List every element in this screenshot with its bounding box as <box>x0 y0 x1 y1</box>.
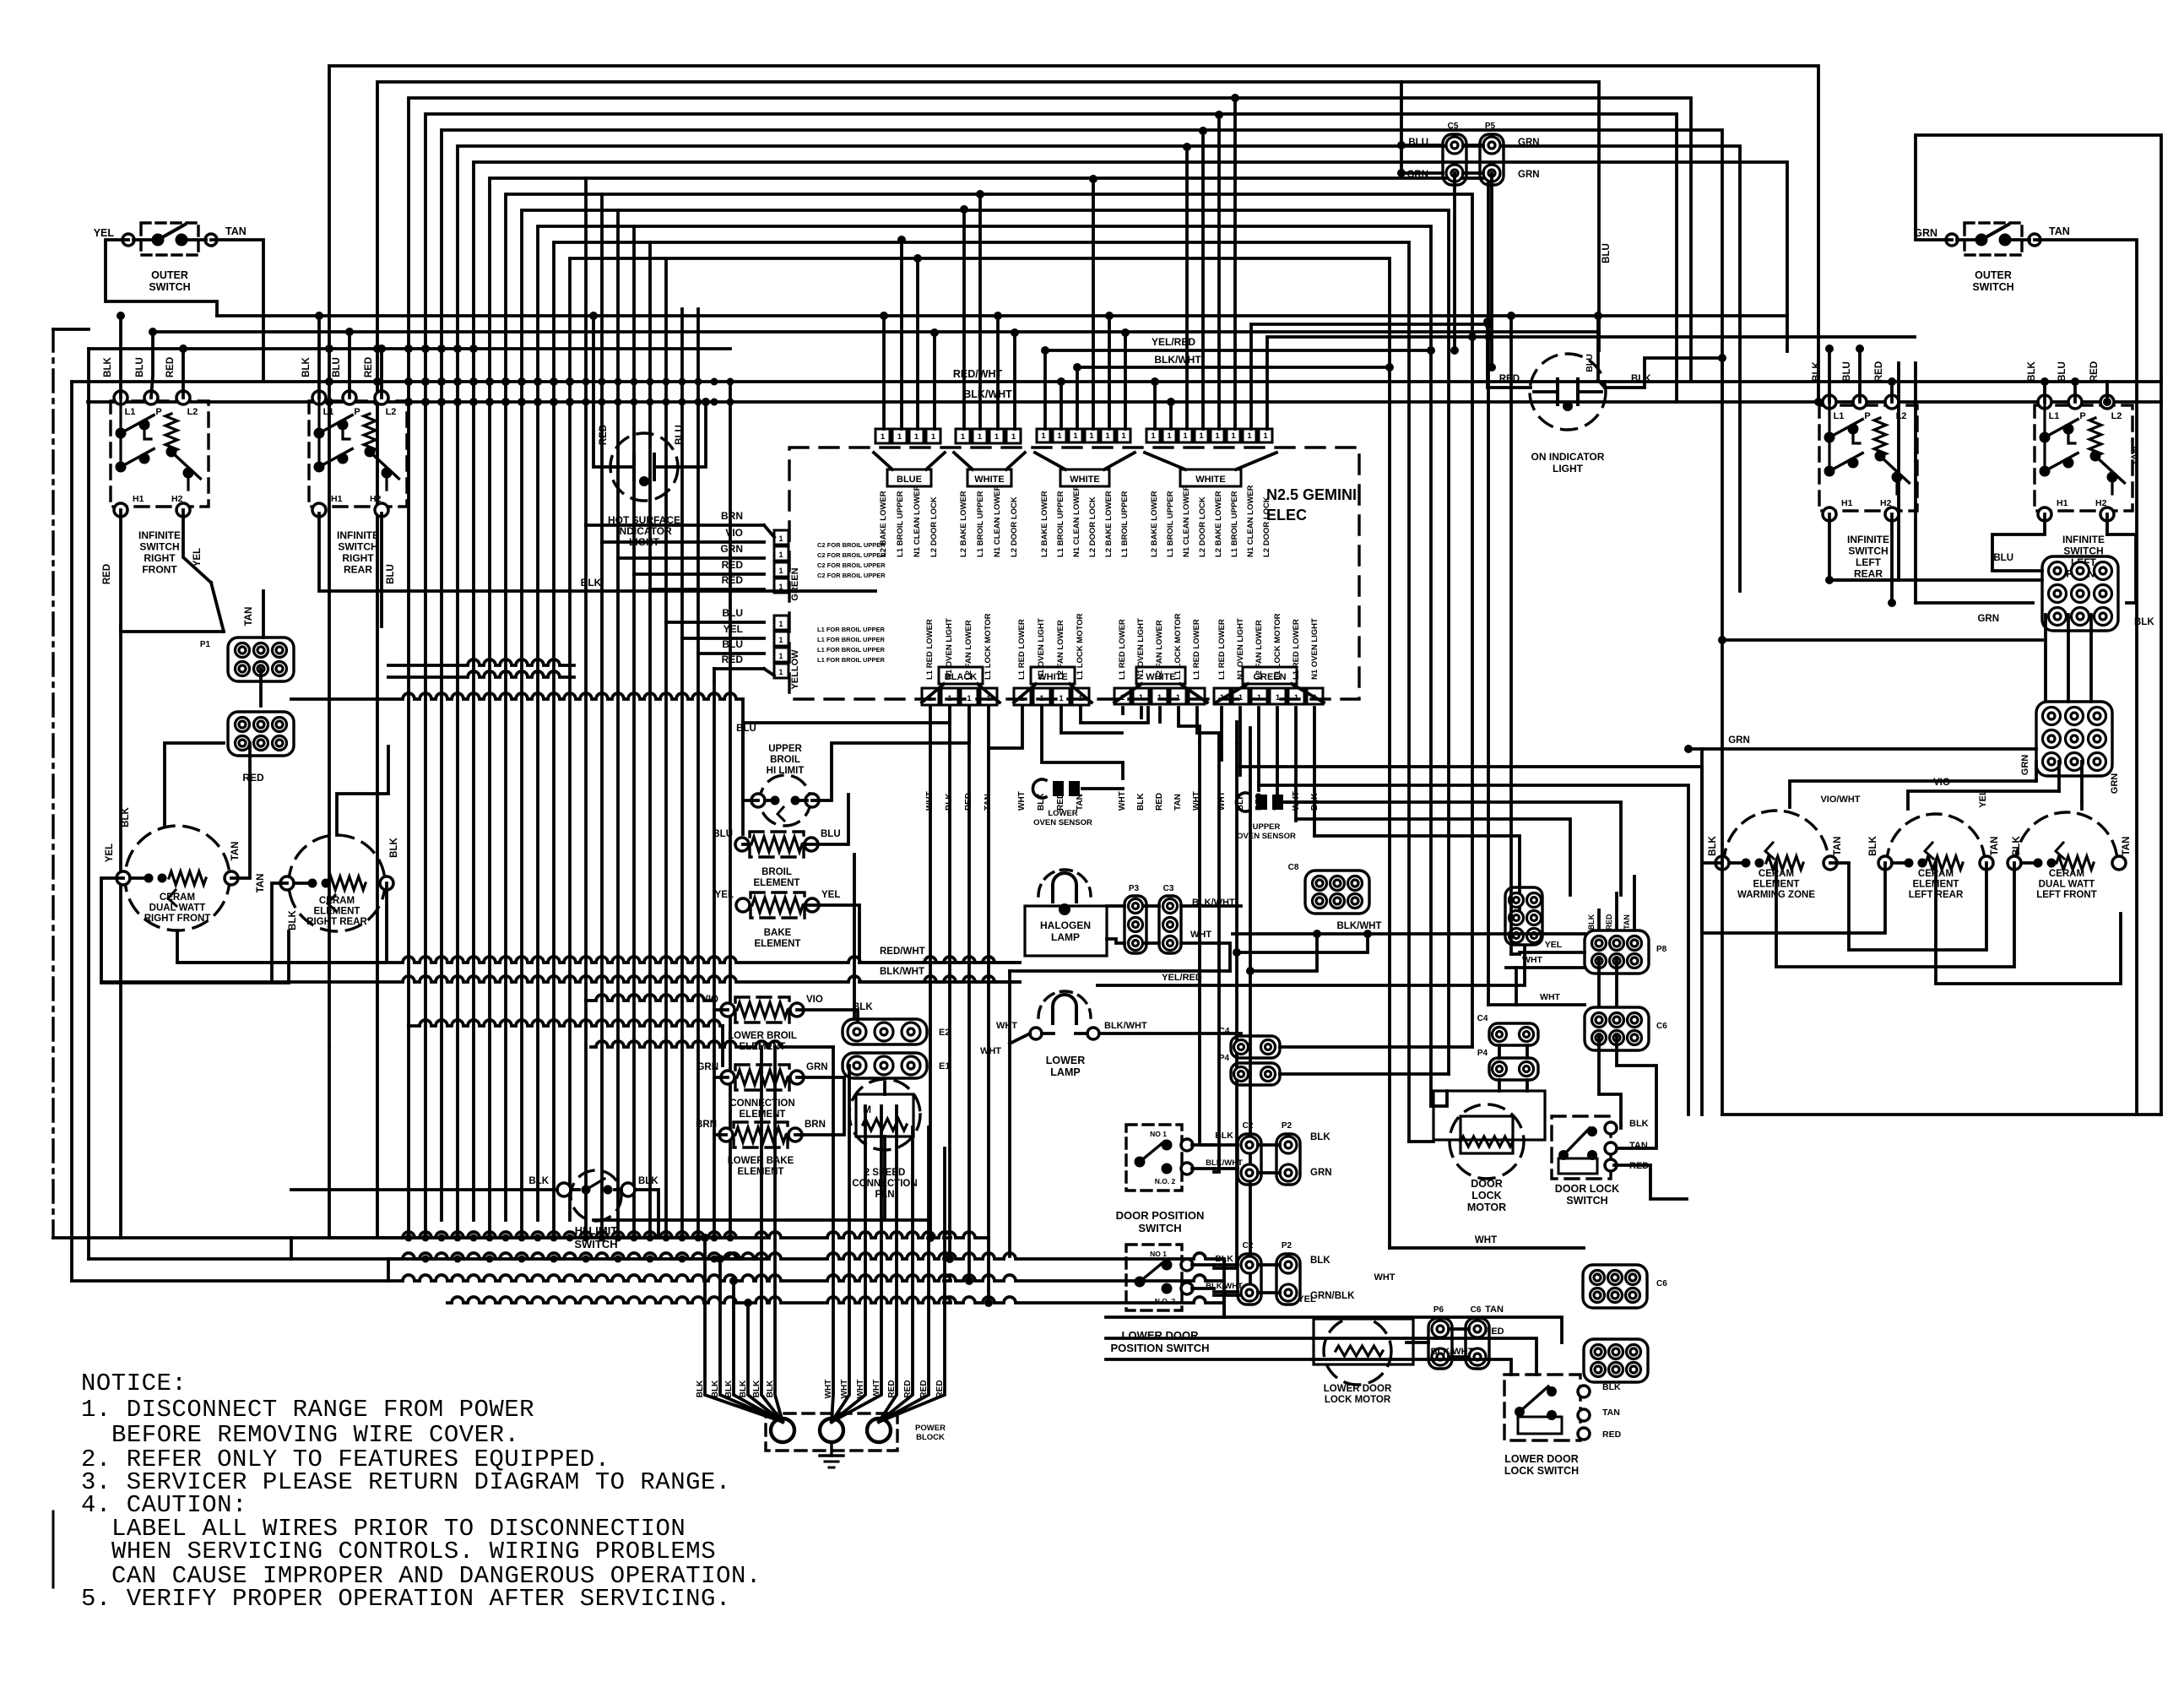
svg-text:YEL: YEL <box>723 623 743 635</box>
svg-text:1: 1 <box>1263 431 1268 441</box>
svg-text:LOWER DOOR: LOWER DOOR <box>1504 1453 1579 1465</box>
svg-text:BLK: BLK <box>1136 793 1146 811</box>
svg-text:1: 1 <box>1039 694 1044 703</box>
svg-text:L1 RED LOWER: L1 RED LOWER <box>1192 619 1201 680</box>
svg-text:DOOR: DOOR <box>1471 1178 1503 1190</box>
svg-text:C4: C4 <box>1219 1027 1230 1036</box>
svg-text:1: 1 <box>1151 431 1156 441</box>
svg-text:L2 DOOR LOCK: L2 DOOR LOCK <box>1088 496 1097 557</box>
svg-text:FRONT: FRONT <box>142 564 177 576</box>
svg-text:L2 BAKE LOWER: L2 BAKE LOWER <box>1214 491 1223 557</box>
svg-text:1: 1 <box>1157 693 1162 702</box>
svg-text:GRN: GRN <box>1977 614 1999 624</box>
svg-text:REAR: REAR <box>344 564 372 576</box>
svg-text:WHT: WHT <box>996 1021 1017 1031</box>
svg-text:TAN: TAN <box>1076 794 1085 811</box>
svg-text:RED: RED <box>722 559 744 571</box>
svg-text:RED/WHT: RED/WHT <box>880 947 925 957</box>
svg-text:L1 RED LOWER: L1 RED LOWER <box>1118 619 1127 680</box>
svg-text:INFINITE: INFINITE <box>337 529 379 541</box>
svg-text:C2 FOR BROIL UPPER: C2 FOR BROIL UPPER <box>817 561 886 569</box>
svg-text:WHITE: WHITE <box>974 475 1004 485</box>
svg-text:L1 BROIL UPPER: L1 BROIL UPPER <box>976 491 985 557</box>
svg-text:BLK: BLK <box>2027 361 2037 381</box>
svg-text:N1 OVEN LIGHT: N1 OVEN LIGHT <box>1037 618 1046 680</box>
svg-text:1: 1 <box>778 636 783 644</box>
svg-text:LOCK: LOCK <box>1471 1190 1501 1202</box>
svg-text:1: 1 <box>1089 431 1094 441</box>
svg-text:P4: P4 <box>1477 1049 1488 1058</box>
svg-text:BLU: BLU <box>736 724 756 734</box>
svg-text:DUAL WATT: DUAL WATT <box>2039 880 2095 890</box>
svg-text:H2: H2 <box>1880 498 1892 508</box>
svg-text:UPPER: UPPER <box>1253 822 1281 832</box>
svg-text:SWITCH: SWITCH <box>1138 1222 1181 1234</box>
svg-text:N2.5 GEMINI: N2.5 GEMINI <box>1266 486 1357 503</box>
svg-text:P: P <box>1864 411 1870 421</box>
svg-text:L2 FAN LOWER: L2 FAN LOWER <box>1155 620 1164 680</box>
svg-text:L1: L1 <box>1834 411 1845 421</box>
svg-text:1: 1 <box>1176 693 1181 702</box>
svg-text:YEL: YEL <box>1545 940 1563 950</box>
svg-text:RED: RED <box>722 654 744 665</box>
svg-text:BAKE: BAKE <box>764 928 792 938</box>
svg-text:1: 1 <box>1231 431 1236 441</box>
svg-text:BLK/WHT: BLK/WHT <box>1154 354 1201 366</box>
svg-text:1: 1 <box>1247 431 1252 441</box>
svg-text:HALOGEN: HALOGEN <box>1040 919 1091 931</box>
svg-text:L2 BAKE LOWER: L2 BAKE LOWER <box>959 491 968 557</box>
svg-text:GRN: GRN <box>1728 735 1750 746</box>
svg-text:H2: H2 <box>370 494 382 504</box>
svg-text:ELEMENT: ELEMENT <box>755 939 801 949</box>
svg-text:WHT: WHT <box>1217 791 1227 811</box>
svg-text:1: 1 <box>897 432 902 442</box>
svg-text:BLU: BLU <box>1842 361 1852 382</box>
svg-text:WHITE: WHITE <box>1070 475 1099 485</box>
svg-text:C6: C6 <box>1656 1022 1667 1031</box>
svg-text:C4: C4 <box>1477 1014 1488 1023</box>
svg-text:RED: RED <box>102 564 112 584</box>
svg-text:C3: C3 <box>1163 884 1174 893</box>
svg-text:BLK/WHT: BLK/WHT <box>880 967 924 977</box>
svg-text:5. VERIFY PROPER OPERATION AFT: 5. VERIFY PROPER OPERATION AFTER SERVICI… <box>81 1585 731 1613</box>
svg-text:BLK: BLK <box>103 356 113 377</box>
svg-text:GRN: GRN <box>1518 138 1540 148</box>
svg-text:C6: C6 <box>1471 1305 1482 1315</box>
svg-text:WHT: WHT <box>1192 791 1201 811</box>
svg-text:C2 FOR BROIL UPPER: C2 FOR BROIL UPPER <box>817 541 886 549</box>
svg-text:L1 LOCK MOTOR: L1 LOCK MOTOR <box>1173 613 1183 680</box>
svg-text:N1 OVEN LIGHT: N1 OVEN LIGHT <box>1136 618 1146 680</box>
svg-text:BLK: BLK <box>1868 835 1878 855</box>
svg-text:TAN: TAN <box>1833 837 1843 856</box>
svg-text:BLK: BLK <box>581 577 602 589</box>
svg-text:RIGHT FRONT: RIGHT FRONT <box>144 914 211 924</box>
svg-text:TAN: TAN <box>1173 794 1183 811</box>
svg-text:OVEN SENSOR: OVEN SENSOR <box>1237 832 1296 841</box>
svg-text:1: 1 <box>778 567 783 575</box>
svg-text:1: 1 <box>778 652 783 660</box>
svg-text:SWITCH: SWITCH <box>1848 545 1888 557</box>
svg-text:L1 BROIL UPPER: L1 BROIL UPPER <box>1056 491 1065 557</box>
svg-text:BLK: BLK <box>2012 835 2022 855</box>
svg-text:E1: E1 <box>939 1061 950 1071</box>
svg-text:LOCK SWITCH: LOCK SWITCH <box>1504 1465 1579 1477</box>
svg-text:WHT: WHT <box>1540 992 1560 1002</box>
svg-text:1: 1 <box>1167 431 1172 441</box>
svg-text:L2 FAN LOWER: L2 FAN LOWER <box>964 620 973 680</box>
svg-text:TAN: TAN <box>984 794 993 811</box>
svg-text:1: 1 <box>1057 431 1062 441</box>
svg-text:SWITCH: SWITCH <box>149 281 190 293</box>
svg-text:UPPER: UPPER <box>768 744 802 754</box>
svg-text:GRN: GRN <box>806 1062 828 1072</box>
svg-text:RED: RED <box>887 1380 897 1397</box>
svg-text:TAN: TAN <box>230 842 241 861</box>
svg-text:YEL: YEL <box>821 890 840 900</box>
svg-text:CERAM: CERAM <box>160 892 195 903</box>
svg-text:SWITCH: SWITCH <box>338 541 377 553</box>
svg-text:RED: RED <box>919 1380 929 1397</box>
svg-text:BLU: BLU <box>1601 243 1612 263</box>
svg-text:RED: RED <box>935 1380 945 1397</box>
svg-text:L2 DOOR LOCK: L2 DOOR LOCK <box>929 496 939 557</box>
svg-text:L1 BROIL UPPER: L1 BROIL UPPER <box>1230 491 1239 557</box>
svg-text:BLK: BLK <box>1037 793 1046 811</box>
svg-text:RED: RED <box>599 425 609 445</box>
svg-text:CONNECTION: CONNECTION <box>852 1179 917 1189</box>
svg-text:H1: H1 <box>2057 498 2068 508</box>
svg-text:BLU: BLU <box>386 564 396 584</box>
svg-text:1: 1 <box>778 583 783 591</box>
svg-text:1. DISCONNECT RANGE FROM POWER: 1. DISCONNECT RANGE FROM POWER <box>81 1396 534 1424</box>
svg-text:1: 1 <box>1294 693 1299 702</box>
svg-text:TAN: TAN <box>225 225 247 237</box>
svg-text:SWITCH: SWITCH <box>1566 1195 1607 1207</box>
svg-text:LAMP: LAMP <box>1050 1066 1080 1078</box>
svg-text:WHT: WHT <box>1374 1272 1395 1283</box>
svg-text:L2 BAKE LOWER: L2 BAKE LOWER <box>1150 491 1159 557</box>
svg-text:HOT SURFACE: HOT SURFACE <box>608 514 680 526</box>
svg-text:BLK: BLK <box>1631 374 1651 384</box>
svg-text:TAN: TAN <box>2049 225 2070 237</box>
svg-text:1: 1 <box>778 551 783 559</box>
svg-text:N1 CLEAN LOWER: N1 CLEAN LOWER <box>1072 485 1081 557</box>
svg-text:L1 RED LOWER: L1 RED LOWER <box>1292 619 1301 680</box>
svg-text:YEL: YEL <box>1978 789 1988 808</box>
svg-text:1: 1 <box>881 432 886 442</box>
svg-text:BLK: BLK <box>121 806 131 827</box>
svg-text:1: 1 <box>978 432 983 442</box>
svg-text:RED: RED <box>964 793 973 811</box>
svg-text:1: 1 <box>1199 431 1204 441</box>
svg-text:RED/WHT: RED/WHT <box>953 368 1003 380</box>
svg-text:LOWER DOOR: LOWER DOOR <box>1324 1384 1392 1394</box>
svg-text:RED: RED <box>722 574 744 586</box>
svg-text:GRN: GRN <box>696 1062 718 1072</box>
svg-text:L2 FAN LOWER: L2 FAN LOWER <box>1255 620 1264 680</box>
svg-text:BLK: BLK <box>389 837 399 857</box>
svg-text:BLK: BLK <box>1587 914 1596 930</box>
svg-text:L1 FOR BROIL UPPER: L1 FOR BROIL UPPER <box>817 646 885 654</box>
svg-text:BROIL: BROIL <box>761 867 792 877</box>
svg-text:L1 RED LOWER: L1 RED LOWER <box>1017 619 1027 680</box>
svg-text:RED: RED <box>1605 914 1613 930</box>
svg-text:1: 1 <box>914 432 919 442</box>
svg-text:BRN: BRN <box>805 1120 826 1130</box>
svg-text:POSITION SWITCH: POSITION SWITCH <box>1111 1342 1210 1354</box>
svg-text:1: 1 <box>1105 431 1110 441</box>
svg-text:H1: H1 <box>133 494 144 504</box>
svg-text:BRN: BRN <box>696 1120 717 1130</box>
svg-text:BLK: BLK <box>1812 361 1822 381</box>
svg-text:GRN: GRN <box>1310 1168 1332 1178</box>
svg-text:BLK: BLK <box>696 1380 705 1397</box>
svg-text:WHT: WHT <box>824 1380 833 1399</box>
svg-text:WHT: WHT <box>856 1380 865 1399</box>
svg-text:BLU: BLU <box>1993 553 2013 563</box>
svg-text:1: 1 <box>1238 693 1244 702</box>
svg-text:1: 1 <box>1276 693 1281 702</box>
svg-text:BLU: BLU <box>332 357 342 377</box>
svg-text:VIO: VIO <box>725 527 743 539</box>
svg-text:VIO: VIO <box>1933 778 1950 788</box>
svg-text:BLU: BLU <box>821 829 841 839</box>
svg-text:N1 CLEAN LOWER: N1 CLEAN LOWER <box>1182 485 1191 557</box>
svg-text:BLK/WHT: BLK/WHT <box>1431 1347 1474 1357</box>
svg-text:1: 1 <box>1121 431 1126 441</box>
svg-text:L2: L2 <box>187 407 198 417</box>
svg-text:L1 BROIL UPPER: L1 BROIL UPPER <box>896 491 905 557</box>
svg-text:L2 DOOR LOCK: L2 DOOR LOCK <box>1198 496 1207 557</box>
svg-text:BLK: BLK <box>638 1176 658 1186</box>
svg-text:BLK: BLK <box>1215 1131 1233 1141</box>
svg-text:P8: P8 <box>1656 945 1667 954</box>
svg-text:GRN: GRN <box>2110 773 2120 795</box>
svg-text:C2: C2 <box>1243 1241 1254 1250</box>
svg-text:WHT: WHT <box>872 1380 881 1399</box>
svg-text:LAMP: LAMP <box>1051 931 1080 943</box>
svg-text:N1 CLEAN LOWER: N1 CLEAN LOWER <box>1246 485 1255 557</box>
svg-text:L2 BAKE LOWER: L2 BAKE LOWER <box>879 491 888 557</box>
svg-text:BLU: BLU <box>2057 361 2067 382</box>
svg-text:BLK: BLK <box>1310 1256 1330 1266</box>
svg-text:BLU: BLU <box>713 829 733 839</box>
svg-text:YEL: YEL <box>94 227 115 239</box>
svg-text:ELEMENT: ELEMENT <box>314 906 360 916</box>
svg-text:1: 1 <box>1139 693 1144 702</box>
svg-text:DOOR POSITION: DOOR POSITION <box>1116 1209 1205 1222</box>
svg-text:GRN: GRN <box>1914 227 1937 239</box>
svg-text:ON INDICATOR: ON INDICATOR <box>1531 451 1605 463</box>
svg-text:BLK: BLK <box>1708 835 1718 855</box>
svg-text:BLU: BLU <box>722 607 743 619</box>
svg-text:LIGHT: LIGHT <box>1553 463 1584 475</box>
svg-text:GREEN: GREEN <box>790 567 800 600</box>
svg-text:1: 1 <box>1183 431 1188 441</box>
svg-text:P: P <box>354 407 360 417</box>
svg-text:BLK: BLK <box>739 1380 748 1397</box>
svg-text:H1: H1 <box>331 494 343 504</box>
svg-text:WHT: WHT <box>1475 1235 1497 1245</box>
svg-text:L1 RED LOWER: L1 RED LOWER <box>1217 619 1227 680</box>
svg-text:C6: C6 <box>1656 1279 1667 1288</box>
svg-text:BLK: BLK <box>1310 1132 1330 1142</box>
svg-text:RED: RED <box>364 357 374 377</box>
svg-text:TAN: TAN <box>1623 914 1631 930</box>
svg-text:C2 FOR BROIL UPPER: C2 FOR BROIL UPPER <box>817 572 886 579</box>
svg-text:WHITE: WHITE <box>1195 475 1225 485</box>
svg-text:BLK: BLK <box>301 356 312 377</box>
svg-text:1: 1 <box>778 534 783 543</box>
svg-text:BLK: BLK <box>528 1176 549 1186</box>
svg-text:P5: P5 <box>1485 122 1496 131</box>
svg-text:P3: P3 <box>1129 884 1140 893</box>
svg-text:L2: L2 <box>2111 411 2122 421</box>
svg-text:LOWER: LOWER <box>1046 1055 1086 1066</box>
svg-text:GRN/BLK: GRN/BLK <box>1310 1291 1355 1301</box>
svg-text:RED: RED <box>1155 793 1164 811</box>
svg-text:TAN: TAN <box>244 607 254 627</box>
svg-text:OUTER: OUTER <box>1975 269 2012 281</box>
svg-text:LIGHT: LIGHT <box>629 536 660 548</box>
svg-text:L2 DOOR LOCK: L2 DOOR LOCK <box>1262 496 1271 557</box>
svg-text:L1: L1 <box>125 407 136 417</box>
svg-text:L1: L1 <box>323 407 334 417</box>
svg-text:OVEN SENSOR: OVEN SENSOR <box>1033 818 1092 827</box>
svg-text:BLK/WHT: BLK/WHT <box>963 388 1012 400</box>
svg-text:GRN: GRN <box>720 543 743 555</box>
svg-text:FAN: FAN <box>875 1190 895 1200</box>
svg-text:WHT: WHT <box>1118 791 1127 811</box>
svg-text:P6: P6 <box>1433 1305 1444 1315</box>
svg-text:ELEMENT: ELEMENT <box>754 878 800 888</box>
svg-text:GRN: GRN <box>2020 755 2030 776</box>
svg-text:MOTOR: MOTOR <box>1467 1202 1506 1213</box>
svg-text:1: 1 <box>778 620 783 628</box>
svg-text:L1 LOCK MOTOR: L1 LOCK MOTOR <box>1076 613 1085 680</box>
svg-text:RED: RED <box>1602 1429 1622 1440</box>
svg-text:BLOCK: BLOCK <box>916 1433 945 1442</box>
svg-text:GRN: GRN <box>1406 170 1428 180</box>
svg-text:ELEC: ELEC <box>1266 507 1307 523</box>
svg-text:L1 RED LOWER: L1 RED LOWER <box>925 619 935 680</box>
svg-text:BLK: BLK <box>752 1380 761 1397</box>
svg-text:L1 FOR BROIL UPPER: L1 FOR BROIL UPPER <box>817 626 885 633</box>
svg-text:TAN: TAN <box>256 874 266 893</box>
svg-text:VIO: VIO <box>806 995 823 1005</box>
svg-text:DOOR LOCK: DOOR LOCK <box>1555 1183 1619 1195</box>
svg-text:P4: P4 <box>1219 1054 1230 1063</box>
svg-text:C8: C8 <box>1288 863 1299 872</box>
svg-text:RED: RED <box>1484 1326 1504 1337</box>
svg-text:OUTER: OUTER <box>151 269 188 281</box>
svg-text:VIO/WHT: VIO/WHT <box>1820 795 1860 805</box>
svg-text:SWITCH: SWITCH <box>139 541 179 553</box>
svg-text:GRN: GRN <box>1518 170 1540 180</box>
svg-text:L1 BROIL UPPER: L1 BROIL UPPER <box>1120 491 1130 557</box>
svg-text:HI LIMIT: HI LIMIT <box>767 766 805 776</box>
svg-text:BLK: BLK <box>945 793 954 811</box>
svg-text:C5: C5 <box>1448 122 1459 131</box>
svg-text:P1: P1 <box>200 640 211 649</box>
svg-text:YEL: YEL <box>1298 1294 1316 1305</box>
svg-text:POWER: POWER <box>915 1424 946 1433</box>
svg-text:1: 1 <box>1073 431 1078 441</box>
svg-text:BLU: BLU <box>722 638 743 650</box>
svg-text:TAN: TAN <box>2122 837 2132 856</box>
svg-text:L1 LOCK MOTOR: L1 LOCK MOTOR <box>1273 613 1282 680</box>
svg-text:N.O. 2: N.O. 2 <box>1155 1177 1176 1185</box>
svg-text:1: 1 <box>947 694 952 703</box>
svg-text:WHT: WHT <box>840 1380 849 1399</box>
svg-text:INFINITE: INFINITE <box>2062 534 2105 545</box>
svg-text:RIGHT REAR: RIGHT REAR <box>306 917 367 927</box>
svg-text:H1: H1 <box>1841 498 1853 508</box>
svg-text:E2: E2 <box>939 1028 950 1038</box>
svg-text:LEFT: LEFT <box>1856 556 1882 568</box>
svg-text:YEL: YEL <box>192 548 203 567</box>
svg-text:YEL/RED: YEL/RED <box>1152 336 1195 348</box>
svg-text:P2: P2 <box>1282 1121 1293 1131</box>
svg-text:1: 1 <box>1011 432 1016 442</box>
svg-text:YEL: YEL <box>105 843 115 862</box>
svg-text:BLK: BLK <box>288 909 298 930</box>
svg-text:WHT: WHT <box>1017 791 1027 811</box>
svg-text:L1 FOR BROIL UPPER: L1 FOR BROIL UPPER <box>817 656 885 664</box>
svg-text:TAN: TAN <box>1990 837 2000 856</box>
svg-text:H2: H2 <box>2095 498 2107 508</box>
svg-text:P: P <box>2079 411 2085 421</box>
svg-text:BLU: BLU <box>1585 354 1595 372</box>
svg-text:INDICATOR: INDICATOR <box>616 525 672 537</box>
svg-text:1: 1 <box>931 432 936 442</box>
svg-text:L1 LOCK MOTOR: L1 LOCK MOTOR <box>984 613 993 680</box>
svg-text:RED: RED <box>903 1380 913 1397</box>
svg-text:BLK: BLK <box>1236 793 1245 811</box>
svg-text:WHT: WHT <box>1190 930 1211 940</box>
svg-text:RED: RED <box>242 772 264 784</box>
svg-text:BLK: BLK <box>766 1380 775 1397</box>
svg-text:1: 1 <box>994 432 1000 442</box>
svg-text:BLK: BLK <box>1629 1119 1649 1129</box>
svg-text:L1 FOR BROIL UPPER: L1 FOR BROIL UPPER <box>817 636 885 643</box>
svg-text:N1 OVEN LIGHT: N1 OVEN LIGHT <box>1310 618 1320 680</box>
svg-text:BLUE: BLUE <box>897 475 922 485</box>
svg-text:P: P <box>155 407 161 417</box>
svg-text:LOCK MOTOR: LOCK MOTOR <box>1325 1395 1391 1405</box>
svg-text:L2 DOOR LOCK: L2 DOOR LOCK <box>1010 496 1019 557</box>
svg-text:BLK/WHT: BLK/WHT <box>1336 921 1381 931</box>
svg-text:N1 OVEN LIGHT: N1 OVEN LIGHT <box>1236 618 1245 680</box>
svg-text:YELLOW: YELLOW <box>790 649 800 690</box>
svg-text:VIO: VIO <box>702 995 718 1005</box>
svg-text:BLK: BLK <box>724 1380 734 1397</box>
svg-text:RIGHT: RIGHT <box>144 552 176 564</box>
svg-text:CERAM: CERAM <box>2049 869 2084 879</box>
svg-text:1: 1 <box>1041 431 1046 441</box>
svg-text:RED: RED <box>2089 361 2100 382</box>
svg-text:L1 BROIL UPPER: L1 BROIL UPPER <box>1166 491 1175 557</box>
svg-text:NO 1: NO 1 <box>1150 1250 1167 1258</box>
svg-text:RED: RED <box>1874 361 1884 382</box>
svg-text:L2 BAKE LOWER: L2 BAKE LOWER <box>1040 491 1049 557</box>
svg-text:BLK: BLK <box>711 1380 720 1397</box>
svg-text:2 SPEED: 2 SPEED <box>864 1168 906 1178</box>
svg-text:TAN: TAN <box>1485 1305 1504 1315</box>
svg-text:N1 CLEAN LOWER: N1 CLEAN LOWER <box>913 485 922 557</box>
